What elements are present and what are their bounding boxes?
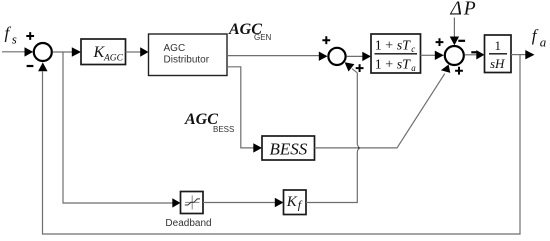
svg-text:sH: sH [490,56,505,71]
svg-text:BESS: BESS [213,125,234,134]
block 1/sH [485,35,512,73]
minus sign at S3 upper-right [458,40,465,42]
plus sign at S3 upper-left [436,38,444,46]
arrowhead delta P into S3 top [450,37,459,46]
gain block Kf [284,190,307,215]
wire BESS to S3 diagonal [315,74,445,148]
gain block K_AGC [81,39,126,65]
wire fs input [2,51,25,53]
arrowhead into summing junction S3 [435,51,444,60]
label fs [5,24,17,47]
arrowhead into summing junction S2 [319,52,328,61]
plus sign at S2 lower-right [356,64,364,72]
wire deadband to Kf [203,202,276,204]
wire 1/sH to output [511,54,526,56]
block lead-lag (1+sTc)/(1+sTa) [371,34,421,73]
arrowhead into 1/sH [476,50,484,59]
svg-text:Deadband: Deadband [165,218,211,229]
svg-text:1 + sT: 1 + sT [375,39,411,54]
svg-text:AGC: AGC [103,54,124,64]
svg-text:BESS: BESS [270,140,308,159]
minus sign right of S3 [471,51,478,53]
plus sign at S3 lower-right [455,67,463,75]
wire K_AGC to distributor [126,51,142,53]
svg-text:GEN: GEN [254,33,272,42]
wire AGC_GEN line to S2 [227,55,320,57]
svg-text:1 + sT: 1 + sT [375,57,411,72]
wire Kf output riser with crossover hop [306,73,359,203]
arrowhead output fa [525,50,534,59]
arrowhead into summing junction S1 [25,47,34,56]
summing junction S1 [34,43,52,61]
wire branch to deadband (vertical from main line) [63,52,173,203]
wire S1 to K_AGC [53,51,73,53]
svg-text:Distributor: Distributor [164,55,210,66]
arrowhead into K_AGC [72,47,81,56]
plus sign at S2 upper-left [322,36,330,44]
wire S2 to lead-lag block [347,55,364,57]
block Deadband [181,192,204,214]
svg-text:s: s [12,32,17,47]
wire lead-lag to S3 [421,54,436,56]
arrowhead into deadband [172,198,180,207]
block AGC Distributor [149,34,228,76]
svg-text:K: K [286,194,298,210]
wire Kf riser diagonal into S2 [352,69,357,73]
wire feedback from output tap [43,55,521,234]
arrowhead into Kf [275,198,284,207]
arrowhead into BESS [253,143,262,152]
label fa [532,26,547,50]
arrowhead into S2 lower-right [345,62,355,71]
svg-text:a: a [411,63,416,73]
arrowhead into lead-lag block [362,52,371,61]
arrowhead into AGC Distributor [140,47,148,56]
wire S3 to 1/sH [465,54,478,56]
summing junction S3 [445,46,464,65]
label AGC_BESS [184,111,234,134]
svg-text:ΔP: ΔP [450,0,478,20]
minus sign at S1 lower-left [27,65,34,67]
summing junction S2 [328,48,345,65]
svg-text:a: a [540,35,547,50]
plus sign at S1 upper-left [26,32,34,40]
arrowhead feedback into S1 bottom [38,62,47,71]
wire distributor second output to BESS [227,67,254,148]
svg-text:AGC: AGC [164,43,186,54]
svg-text:c: c [411,44,415,54]
label AGC_GEN [228,21,272,42]
wire delta P drop [453,18,455,38]
svg-text:1: 1 [495,38,502,53]
arrowhead BESS path into S3 bottom [441,65,450,73]
block BESS [262,136,315,160]
